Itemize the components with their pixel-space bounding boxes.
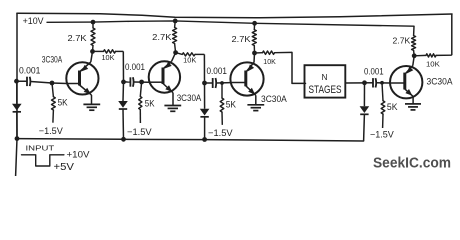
svg-text:+10V: +10V — [67, 150, 90, 160]
svg-text:10K: 10K — [102, 53, 115, 62]
svg-text:SeekIC.com: SeekIC.com — [373, 155, 451, 172]
svg-text:5K: 5K — [387, 102, 398, 112]
svg-text:STAGES: STAGES — [309, 84, 342, 96]
svg-text:5K: 5K — [58, 98, 69, 108]
svg-text:0.001: 0.001 — [364, 67, 384, 77]
svg-text:2.7K: 2.7K — [393, 35, 411, 45]
svg-text:0.001: 0.001 — [207, 66, 227, 76]
svg-text:−1.5V: −1.5V — [39, 126, 64, 136]
svg-text:5K: 5K — [226, 99, 237, 109]
svg-text:3C30A: 3C30A — [261, 94, 287, 104]
svg-text:INPUT: INPUT — [26, 144, 55, 153]
svg-text:−1.5V: −1.5V — [370, 130, 395, 140]
svg-text:10K: 10K — [183, 55, 196, 64]
svg-text:+5V: +5V — [54, 162, 75, 173]
svg-text:2.7K: 2.7K — [68, 33, 87, 43]
svg-text:2.7K: 2.7K — [232, 34, 251, 44]
svg-text:10K: 10K — [426, 59, 440, 68]
svg-text:10K: 10K — [263, 57, 276, 66]
svg-text:3C30A: 3C30A — [42, 55, 62, 65]
svg-text:2.7K: 2.7K — [152, 32, 172, 42]
svg-text:0.001: 0.001 — [19, 65, 40, 75]
svg-text:0.001: 0.001 — [125, 62, 145, 72]
svg-text:3C30A: 3C30A — [177, 93, 202, 103]
svg-text:3C30A: 3C30A — [427, 77, 453, 87]
svg-text:N: N — [322, 72, 328, 82]
svg-text:5K: 5K — [145, 98, 155, 108]
svg-text:+10V: +10V — [23, 16, 45, 26]
svg-text:−1.5V: −1.5V — [127, 127, 152, 137]
svg-text:−1.5V: −1.5V — [208, 128, 233, 138]
